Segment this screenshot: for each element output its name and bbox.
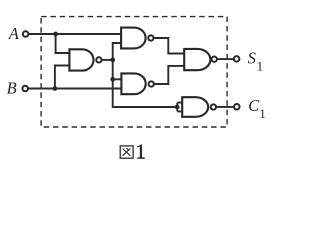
junction dot on A line: [53, 32, 58, 37]
junction dot N1 branch to U3: [110, 77, 115, 82]
svg-text:1: 1: [135, 140, 146, 164]
output terminal S1: [234, 56, 240, 62]
wire U2 output to U4 top input: [151, 38, 187, 54]
NAND gate U4: [184, 49, 217, 70]
wire node N1 from U1 output: [99, 59, 113, 61]
enclosure dashed box: [41, 17, 227, 127]
junction dot on B line: [53, 86, 58, 91]
wire N1 to U3 top input: [113, 78, 124, 80]
wire U3 output to U4 bottom input: [151, 66, 187, 84]
svg-text:B: B: [7, 79, 17, 98]
svg-text:A: A: [8, 24, 20, 43]
wire N1 up to U2 bottom input: [113, 43, 124, 60]
wire B horizontal to gate U3: [28, 88, 124, 90]
wire A horizontal to gate U2: [29, 33, 124, 35]
svg-text:C1: C1: [248, 96, 266, 121]
junction dot at U5 tied inputs: [175, 105, 180, 110]
NAND gate U5: [182, 97, 216, 117]
wire U5 tied input stubs: [177, 103, 183, 112]
NAND gate U3: [121, 73, 153, 94]
NAND gate U1: [69, 49, 101, 70]
NAND gate U2: [121, 28, 153, 49]
wire A branch down to gate U1 top input: [56, 34, 72, 53]
input terminal A: [23, 31, 29, 37]
junction dot node N1 at U1 output: [110, 57, 115, 62]
wire N1 down to U5 input: [113, 60, 177, 107]
wire U4 output to terminal S1: [217, 58, 234, 60]
output terminal C1: [234, 104, 240, 110]
caption figure 1 (zu 1): [120, 140, 146, 164]
wire U5 output to terminal C1: [216, 106, 234, 108]
svg-text:S1: S1: [248, 48, 264, 73]
wire B branch up to gate U1 bottom input: [55, 66, 72, 89]
input terminal B: [22, 86, 28, 92]
